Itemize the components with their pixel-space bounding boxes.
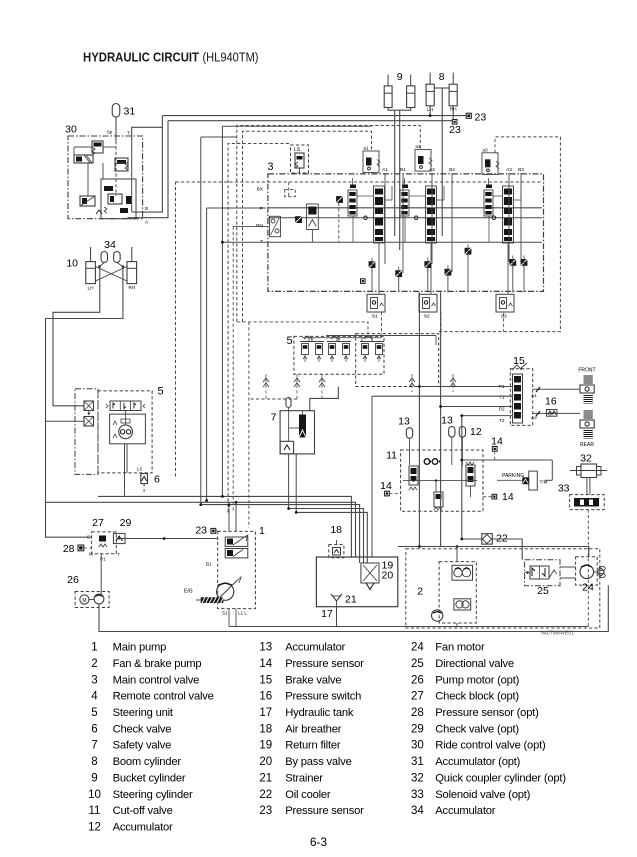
svg-text:Remote control valve: Remote control valve [113,691,214,703]
wire b1 pilot down [381,312,383,336]
wire b2 pilot down [440,312,442,334]
remote control valve box a [294,336,384,374]
accumulator 13 b [449,427,455,438]
svg-text:RH: RH [128,285,135,291]
chevron break 5 [409,378,415,382]
wire T1 line [372,395,513,397]
pressure sensor 14 left [385,491,390,496]
wire long dashed vert x175 BX [175,182,177,477]
svg-text:27: 27 [92,517,104,529]
chevron break 4 [450,378,456,382]
wire 8 rod cross [434,87,442,89]
svg-text:23: 23 [195,525,207,537]
svg-text:Main control valve: Main control valve [113,674,200,686]
wire Pst in [233,225,268,227]
wire a3 riser [494,137,496,153]
svg-text:b3: b3 [501,314,507,320]
wire 33 down [587,510,589,627]
main control valve 3 box [268,174,544,292]
wire pump2 down [456,623,458,627]
svg-text:T2: T2 [499,418,505,424]
valve 3 internal P line [268,207,542,209]
valve 3 sec3 service lines+checks [508,173,510,262]
return filter 19/20 [361,563,379,583]
wire heavy vert b [440,292,442,546]
wire 12 stub [461,437,463,466]
svg-text:18: 18 [330,524,342,536]
enclosure fan circuit [406,549,600,628]
svg-text:Air breather: Air breather [285,723,342,735]
wire 14 left stub [389,493,400,495]
svg-text:(HL940TM): (HL940TM) [203,50,259,65]
check blob in 3 b [295,216,302,223]
svg-text:1: 1 [259,525,265,537]
wire steering down [124,444,126,497]
svg-text:33: 33 [411,789,424,801]
wire P1 line [419,386,512,388]
parking valve [522,477,529,484]
svg-text:15: 15 [259,674,272,686]
wire 14 top stub [494,451,496,460]
svg-text:25: 25 [537,585,549,597]
svg-text:13: 13 [259,642,272,654]
svg-text:14: 14 [380,480,392,492]
svg-text:P: P [260,206,263,212]
svg-text:A1: A1 [531,393,537,399]
svg-text:B1: B1 [400,167,406,173]
svg-text:31: 31 [124,106,136,118]
svg-text:L1 L: L1 L [238,611,247,616]
valve section 3 (aux) with pilot caps a3/b3 [482,153,498,175]
svg-text:31: 31 [411,756,424,768]
relief valve in 3 [307,204,319,230]
svg-text:26: 26 [411,674,424,686]
wire check6 down [143,484,145,492]
wire 25 to 24 [560,566,576,568]
valve C2 in 11 [434,492,443,507]
fan motor circle [580,565,594,579]
wire remote internal b [326,335,436,337]
svg-text:6: 6 [154,474,160,486]
svg-text:32: 32 [411,772,424,784]
accumulator 12 [459,427,465,438]
wire pump2 up [456,547,458,562]
svg-text:Fan & brake pump: Fan & brake pump [113,658,202,670]
ride control valve 30 internals [92,141,103,153]
svg-text:13: 13 [441,415,453,427]
svg-text:28: 28 [411,707,424,719]
svg-text:7: 7 [271,412,277,424]
oil cooler 22 [482,534,493,544]
svg-text:8: 8 [439,71,445,83]
bypass valve 20 sym [366,583,374,590]
steering unit outer dashdot [75,389,98,475]
svg-text:Bucket cylinder: Bucket cylinder [113,772,186,784]
wire 14 right stub [483,496,492,498]
svg-text:29: 29 [411,723,424,735]
brake valve 15 box [510,369,532,426]
chevron break 2 [294,378,300,382]
steering unit spool [110,401,141,411]
fan brake pump 2 box [439,562,476,623]
wire pilot link box3-remote [237,322,368,334]
wire 8 RH down [452,106,454,121]
valve C1 in 11 [409,466,418,485]
svg-text:Accumulator (opt): Accumulator (opt) [435,756,520,768]
wire pump1 out a [228,505,230,532]
svg-text:B1: B1 [206,562,212,567]
svg-text:Solenoid valve (opt): Solenoid valve (opt) [435,789,530,801]
wire long vert x202 [200,137,202,505]
svg-text:9: 9 [397,71,403,83]
wire A2 to rear axle [533,412,580,414]
svg-text:34: 34 [411,805,424,817]
wire B line box30 [132,116,163,213]
safety valve 7 box [280,411,314,454]
pilot line a1 route [243,131,372,322]
svg-text:Pst: Pst [256,223,264,229]
svg-text:Check valve: Check valve [113,723,172,735]
pilot line LS route [228,144,290,513]
wire feed steer valve b [46,420,85,422]
wire 27 down to 26 [100,554,102,595]
cut-off valve 11 box [401,450,483,511]
svg-text:27: 27 [411,691,424,703]
wire 8 to valve B2 [441,88,443,236]
svg-text:Pressure switch: Pressure switch [285,691,361,703]
valve section 1 (boom) with pilot caps a1/b1 [363,151,379,173]
svg-text:12: 12 [470,426,482,438]
svg-text:a3: a3 [482,147,488,153]
wire busA [98,496,351,557]
wire A line box30 [128,121,169,218]
svg-text:6: 6 [91,723,97,735]
svg-text:20: 20 [382,570,394,582]
wire 21 down [336,607,338,627]
valve 3 internal BX line [176,181,543,183]
directional valve internals [530,566,549,579]
wire top link x202 [201,136,237,138]
valve 3 sec1 service lines+checks [384,173,386,264]
svg-text:Return filter: Return filter [285,740,341,752]
check block internals [99,536,106,542]
wire 28 stub [84,547,92,549]
svg-text:Safety valve: Safety valve [113,740,172,752]
svg-text:A3: A3 [506,167,512,173]
svg-text:Ride control valve (opt): Ride control valve (opt) [435,740,546,752]
svg-text:Directional valve: Directional valve [435,658,514,670]
fan blades [597,568,604,572]
svg-text:17: 17 [321,608,333,620]
safety valve 7 inner check [280,441,294,454]
wire 9 bottoms join [388,108,411,111]
fan motor 24 box [576,557,598,585]
svg-text:Boom cylinder: Boom cylinder [113,756,182,768]
svg-text:Check valve (opt): Check valve (opt) [435,723,519,735]
svg-text:940TM6WE01: 940TM6WE01 [541,631,574,637]
svg-text:Check block (opt): Check block (opt) [435,691,519,703]
wire T2 line [462,415,513,417]
svg-text:Oil cooler: Oil cooler [285,789,331,801]
svg-text:26: 26 [67,574,79,586]
svg-text:a2: a2 [415,144,421,150]
svg-text:HYDRAULIC CIRCUIT: HYDRAULIC CIRCUIT [83,50,199,65]
wire 23 dashes [216,530,218,532]
svg-text:21: 21 [345,594,357,606]
pilot line enclosure right [439,137,561,332]
svg-text:6-3: 6-3 [310,836,327,849]
fan pump symbols [452,565,473,580]
svg-text:5: 5 [286,335,292,347]
svg-text:Fan motor: Fan motor [435,642,485,654]
wire 8 LH down [429,106,431,116]
svg-text:5: 5 [158,386,164,398]
svg-text:28: 28 [63,543,75,555]
LS port box [291,145,309,173]
brake gear pump [454,599,471,610]
svg-text:Hydraulic tank: Hydraulic tank [285,707,354,719]
pedal valve cluster 2 [327,341,351,343]
svg-text:Cut-off valve: Cut-off valve [113,805,173,817]
svg-text:21: 21 [259,772,272,784]
engine shaft [201,597,224,603]
pressure sensor 23 b [452,120,457,125]
svg-text:3: 3 [267,161,273,173]
wire fan supply [398,547,589,557]
svg-text:BX: BX [257,187,264,193]
svg-text:Accumulator: Accumulator [435,805,495,817]
svg-text:20: 20 [259,756,272,768]
wire T riser from box30 [132,127,163,141]
svg-text:11: 11 [89,805,101,817]
svg-text:Accumulator: Accumulator [113,821,173,833]
steering unit inner box [110,414,146,444]
svg-text:E/G: E/G [184,589,193,595]
svg-text:33: 33 [558,483,570,495]
wire busD [289,509,364,564]
front axle [584,375,593,385]
remote control valve box b [356,334,439,387]
svg-text:9: 9 [91,772,97,784]
steering cylinders 10 [86,262,96,284]
check valve 6 [141,474,148,484]
svg-text:Accumulator: Accumulator [285,642,345,654]
unload valve in 3 [270,216,281,236]
svg-text:Brake valve: Brake valve [285,674,341,686]
svg-text:b2: b2 [424,314,430,320]
svg-text:30: 30 [65,124,77,136]
svg-text:a1: a1 [363,146,369,152]
wire long vert x207 P-in [206,208,208,501]
svg-text:Steering cylinder: Steering cylinder [113,789,193,801]
charge pump circle [432,610,443,621]
svg-text:A2: A2 [429,167,435,173]
svg-text:16: 16 [545,396,557,408]
svg-text:10: 10 [66,258,78,270]
svg-text:22: 22 [259,789,272,801]
svg-text:23: 23 [449,124,461,136]
svg-text:PARKING: PARKING [502,473,524,479]
svg-text:B2: B2 [449,167,455,173]
svg-text:18: 18 [259,723,272,735]
valve C3 in 11 [466,465,475,486]
valve 3 internal T line [222,241,542,243]
svg-text:30: 30 [411,740,424,752]
accumulator 13 a [406,428,412,439]
svg-text:B: B [145,206,148,211]
svg-text:23: 23 [259,805,272,817]
pedal valve cluster 1 [300,341,324,343]
wire parking line [462,459,553,461]
svg-text:5: 5 [91,707,97,719]
wire 22 left [462,538,482,540]
wire 27-29 out [116,538,217,540]
wire 22 right [492,539,522,560]
wire 13b stub [451,437,453,465]
svg-text:14: 14 [502,491,514,503]
wire 7 downs [288,454,290,509]
svg-text:1: 1 [91,642,97,654]
wire 7 internals [288,408,290,442]
svg-text:19: 19 [259,740,272,752]
steering unit 5 box [98,391,152,473]
wire 7 out right [310,387,339,411]
junction dots buses [221,495,224,498]
wire inner B/A verticals [131,141,133,212]
svg-text:Pressure sensor (opt): Pressure sensor (opt) [435,707,539,719]
wire H3 solid [222,125,371,127]
wire bus H2 [168,120,452,122]
wire 13a stub [409,438,411,465]
svg-text:M: M [89,552,93,557]
accumulator 31 [112,104,120,118]
wire 26 down [98,604,100,632]
wire pilot dashes to pump [248,322,250,528]
wire P2 line [441,406,513,408]
svg-text:P2: P2 [499,406,505,412]
svg-text:4: 4 [91,691,98,703]
svg-text:24: 24 [582,582,594,594]
svg-text:15: 15 [513,355,525,367]
wire heavy vert c [461,416,463,539]
rear axle [584,410,593,420]
svg-text:Sp: Sp [107,130,113,135]
check valves C5 C6 in 11 [424,459,430,465]
wire 11 internal v [435,481,437,492]
wire parking to TM [497,479,522,481]
svg-text:34: 34 [104,239,116,251]
main pump circle [217,583,234,600]
svg-text:14: 14 [259,658,272,670]
svg-text:17: 17 [259,707,272,719]
svg-text:By pass valve: By pass valve [285,756,351,768]
pedal valve cluster 3 [360,341,384,343]
wire into 27 [46,502,92,537]
TM box [529,471,538,490]
svg-text:14: 14 [491,436,503,448]
accumulator 34 pair [101,252,108,263]
wire heavy vert a [418,292,420,546]
check valve in 3 a [336,196,343,203]
crossover linkage 34-10 [98,265,101,268]
svg-text:29: 29 [120,517,132,529]
svg-text:REAR: REAR [580,442,594,448]
wire remote internal a [302,337,381,339]
valve 3 small square port [361,279,366,284]
svg-text:Steering unit: Steering unit [113,707,174,719]
svg-text:A1: A1 [382,167,388,173]
wire bottom return b [99,585,608,631]
valve 3 sec2 service lines+checks [431,173,433,264]
wire busE [296,512,367,563]
wire pump1 out b [235,502,237,531]
chevron break 1 [263,378,269,382]
svg-text:10: 10 [88,789,101,801]
svg-text:23: 23 [475,112,487,124]
svg-text:Pressure sensor: Pressure sensor [285,805,364,817]
svg-text:16: 16 [259,691,272,703]
safety valve 7 relief [299,415,306,438]
wire 10 LH down [53,267,100,406]
wire 11 internal h [403,480,477,482]
chevron break 3 [319,378,325,382]
hydraulic tank 17 [316,557,397,607]
svg-text:FRONT: FRONT [578,368,595,374]
svg-text:LS: LS [294,147,301,153]
svg-text:7: 7 [91,740,97,752]
pressure sensor 23 a [466,113,471,118]
accumulator above 7 [286,398,291,408]
wire A1 to front axle [533,388,580,390]
svg-text:12: 12 [88,821,101,833]
main pump 1 box [218,531,256,608]
pressure sensor 14 right [492,494,497,499]
svg-text:T1: T1 [499,394,505,400]
svg-text:13: 13 [398,416,410,428]
wire 9 to valve B1 [399,110,401,250]
wire busB [46,502,356,557]
directional valve 25 [525,560,560,586]
svg-text:B3: B3 [518,167,524,173]
svg-text:8: 8 [91,756,97,768]
svg-text:LS: LS [137,467,142,472]
wire 9 to valve A1 [394,110,396,236]
svg-text:Strainer: Strainer [285,772,323,784]
wire busC [201,505,360,563]
wire long vert x222 [221,126,223,496]
svg-text:32: 32 [580,453,592,465]
svg-text:LH: LH [88,286,95,292]
brake valve 15 internals [513,374,523,423]
steering unit gerotor [119,425,133,439]
pilot line a2 route [237,126,420,322]
wire 10 RH down [46,267,123,503]
pressure sensor 14 top [492,447,497,452]
wire 31 to box30 Sp [115,117,117,141]
wire LS stub [299,168,301,173]
ride control valve 30 box [68,136,143,219]
svg-text:3: 3 [91,674,97,686]
wire bus H1 [162,115,466,117]
svg-text:2: 2 [417,586,423,598]
svg-text:S1: S1 [222,611,228,616]
svg-text:Quick coupler cylinder (opt): Quick coupler cylinder (opt) [435,772,566,784]
svg-text:Pressure sensor: Pressure sensor [285,658,364,670]
steering unit left valves [84,401,94,411]
wire b3 pilot down [503,313,505,332]
svg-text:M: M [82,598,86,604]
valve section 2 (bucket) with pilot caps a2/b2 [415,150,431,172]
